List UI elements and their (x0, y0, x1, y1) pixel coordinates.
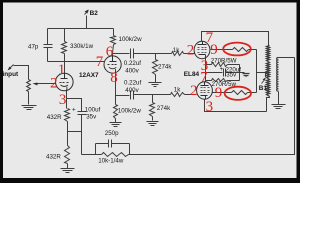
wire upper coupling (113, 53, 130, 55)
red circle highlight upper (223, 43, 251, 56)
tube EL84 lower (197, 82, 213, 100)
resistor 100k/2w lower (114, 96, 118, 123)
wire B1 stub (265, 73, 267, 78)
resistor 1k upper (172, 52, 184, 56)
svg-text:+: + (220, 66, 224, 73)
wire B1 feed (257, 72, 270, 74)
svg-text:1k: 1k (173, 47, 180, 54)
wire lower screen (213, 92, 232, 94)
node B2 arrowhead (85, 10, 89, 14)
resistor 330k/1w (62, 29, 67, 62)
svg-text:2: 2 (187, 42, 195, 58)
wire splitter cathode lead (115, 74, 117, 96)
svg-text:270R/5w: 270R/5w (212, 81, 237, 88)
svg-text:8: 8 (110, 70, 118, 86)
ground 274k upper (149, 83, 162, 87)
ground 432R (61, 169, 75, 173)
wire 432R junction (68, 131, 82, 133)
wire top rail B2 (48, 28, 114, 30)
svg-text:1k: 1k (174, 86, 181, 93)
wire screen rail (256, 50, 258, 93)
wire primary bottom (267, 97, 270, 112)
svg-text:+: + (72, 106, 76, 113)
svg-text:EL84: EL84 (184, 71, 200, 78)
svg-text:35v: 35v (86, 114, 97, 121)
wire 47p branch (47, 29, 49, 45)
svg-text:250p: 250p (105, 130, 119, 137)
svg-text:100uf: 100uf (85, 107, 101, 114)
resistor 432R lower (65, 132, 70, 169)
svg-text:100k/2w: 100k/2w (119, 36, 143, 43)
wire V1 cathode lead (66, 90, 68, 99)
node fb box left (95, 144, 97, 155)
svg-text:input: input (3, 71, 19, 78)
svg-text:10k-1/4w: 10k-1/4w (98, 157, 124, 164)
wire cathode tie (205, 59, 207, 82)
svg-text:3: 3 (59, 92, 67, 108)
svg-text:330k/1w: 330k/1w (70, 43, 94, 50)
wire upper coupling 2 (134, 53, 172, 55)
svg-text:432R: 432R (47, 114, 62, 121)
transformer primary (267, 46, 270, 97)
svg-text:274k: 274k (158, 64, 172, 71)
potentiometer 500k (27, 80, 31, 105)
svg-text:12AX7: 12AX7 (79, 72, 99, 79)
resistor 432R upper (65, 99, 70, 132)
wire V1 plate lead (64, 62, 66, 74)
svg-text:9: 9 (210, 42, 218, 58)
capacitor C 47p (44, 45, 53, 48)
capacitor 250p (96, 140, 130, 148)
resistor 274k upper (153, 60, 158, 83)
node wiper arrowhead (33, 83, 38, 86)
resistor 270R/5w A (206, 63, 240, 67)
svg-text:35v: 35v (226, 72, 237, 79)
ground chassis triangle (243, 74, 250, 77)
wire V1 grid wiper (37, 83, 56, 85)
border frame (0, 0, 300, 183)
svg-text:432R: 432R (46, 153, 61, 160)
svg-text:3: 3 (206, 99, 214, 115)
node B2 arrow (85, 11, 89, 15)
svg-text:270R/5W: 270R/5W (211, 57, 237, 64)
svg-text:B1: B1 (259, 85, 268, 92)
resistor 270R/5w B (206, 79, 240, 82)
wire 274k upper drop (155, 54, 157, 60)
resistor 1k lower (171, 93, 185, 97)
ground 100k/2w lower (110, 123, 122, 127)
svg-text:7: 7 (96, 54, 104, 70)
wire to lower EL84 grid (185, 94, 197, 96)
wire B2 drop (86, 16, 88, 29)
node B1 arrow (262, 79, 266, 84)
svg-text:100k/2w: 100k/2w (118, 108, 142, 115)
svg-text:274k: 274k (157, 105, 171, 112)
resistor 100k/2w upper (111, 29, 116, 54)
wire secondary top (279, 57, 295, 59)
svg-text:47p: 47p (28, 43, 39, 50)
node B1 arrowhead (263, 78, 266, 81)
resistor 270R screen upper (233, 48, 257, 52)
node fb box right (129, 144, 131, 155)
wire secondary to ground (278, 92, 280, 105)
resistor 10k-1/4w (96, 153, 130, 157)
tube V1 12AX7 triode B splitter (104, 56, 121, 73)
wire upper EL84 plate (202, 32, 269, 46)
wire upper screen (211, 49, 233, 51)
wire splitter plate lead (112, 54, 114, 57)
wire 274k lower drop (152, 95, 154, 103)
wire cap bottom feedback drop (81, 115, 83, 155)
capacitor 100uf/35v (78, 112, 87, 115)
wire lower coupling (116, 95, 130, 97)
svg-text:400v: 400v (125, 87, 139, 94)
red circle highlight lower (225, 87, 251, 100)
svg-text:6: 6 (106, 44, 114, 60)
wire lower coupling 2 (134, 94, 171, 96)
svg-text:1: 1 (58, 62, 66, 78)
wire feedback long (130, 58, 295, 155)
ground 274k lower (147, 122, 159, 126)
svg-text:0.22uf: 0.22uf (124, 79, 141, 86)
capacitor 0.22uf lower (131, 91, 134, 100)
capacitor 0.22uf upper (131, 49, 134, 59)
node input arrowhead (8, 67, 12, 71)
wire to upper EL84 grid (184, 53, 195, 55)
transformer secondary (277, 58, 279, 92)
wire plate rail V1 (48, 61, 105, 63)
svg-text:2: 2 (50, 75, 58, 91)
svg-text:0.22uf: 0.22uf (124, 60, 141, 67)
wire 220uf row (206, 72, 223, 74)
capacitor 220uf/35v (224, 69, 240, 77)
node input arrow (9, 65, 14, 70)
wire chassis stub (240, 72, 245, 74)
svg-text:400v: 400v (125, 67, 139, 74)
wire feedback bottom (82, 154, 96, 156)
svg-text:B2: B2 (90, 10, 99, 17)
resistor 274k lower (150, 103, 155, 121)
wire cathode rail right (239, 65, 241, 81)
resistor 270R screen lower (232, 91, 257, 95)
tube EL84 upper (194, 41, 210, 58)
ground secondary (272, 105, 286, 109)
ground pot (22, 106, 37, 110)
wire input (14, 66, 29, 80)
tube V1 12AX7 triode A (56, 73, 74, 91)
wire lower EL84 plate run (205, 100, 267, 112)
svg-text:7: 7 (200, 69, 208, 85)
wire cathode to cap (67, 99, 82, 112)
svg-text:2: 2 (190, 83, 198, 99)
